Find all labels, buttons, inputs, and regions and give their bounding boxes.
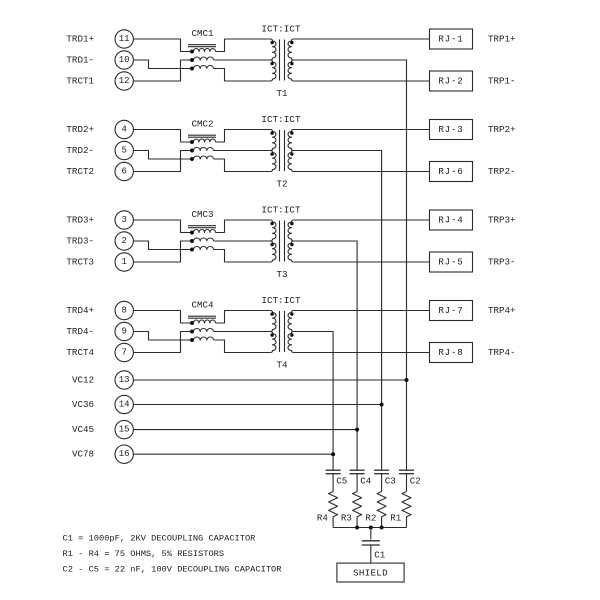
CMC1 core xyxy=(188,45,216,47)
svg-text:TRCT4: TRCT4 xyxy=(66,347,94,358)
svg-text:TRP1-: TRP1- xyxy=(488,76,516,87)
terminal box RJ-3 xyxy=(430,120,473,140)
svg-text:SHIELD: SHIELD xyxy=(353,567,388,578)
svg-text:TRP4+: TRP4+ xyxy=(488,305,516,316)
svg-text:12: 12 xyxy=(119,76,130,86)
pin 10 xyxy=(115,51,133,69)
svg-text:C3: C3 xyxy=(385,475,396,486)
svg-text:C4: C4 xyxy=(360,475,372,486)
terminal box RJ-7 xyxy=(430,301,473,321)
wire T2 secondary center tap to capacitor column (net VC) xyxy=(292,151,382,470)
resistor R3 xyxy=(353,492,362,528)
wire T4 secondary center tap to capacitor column (net VC) xyxy=(292,332,334,470)
resistor R2 xyxy=(377,492,386,528)
wire T3 secondary bottom to RJ-5 xyxy=(294,261,430,263)
svg-text:TRCT2: TRCT2 xyxy=(66,166,94,177)
svg-text:6: 6 xyxy=(121,167,126,177)
wire T1 secondary bottom to RJ-2 xyxy=(294,80,430,82)
transformer T4 core xyxy=(280,311,285,352)
svg-text:T3: T3 xyxy=(276,269,287,280)
svg-text:C1 = 1000pF, 2KV DECOUPLING CA: C1 = 1000pF, 2KV DECOUPLING CAPACITOR xyxy=(63,534,256,544)
wire T1 secondary top to RJ-1 xyxy=(294,38,430,40)
svg-text:3: 3 xyxy=(121,215,126,225)
svg-text:VC36: VC36 xyxy=(72,399,94,410)
svg-text:T1: T1 xyxy=(276,88,288,99)
svg-text:TRCT3: TRCT3 xyxy=(66,257,94,268)
svg-text:TRD1-: TRD1- xyxy=(66,55,94,66)
CMC1 winding 1 with polarity dot xyxy=(190,49,216,54)
CMC4 winding 2 with polarity dot xyxy=(190,329,214,334)
svg-text:10: 10 xyxy=(119,55,130,65)
svg-text:VC45: VC45 xyxy=(72,424,94,435)
svg-text:C2 - C5 = 22 nF, 100V DECOUPLI: C2 - C5 = 22 nF, 100V DECOUPLING CAPACIT… xyxy=(63,565,282,575)
svg-text:TRD4+: TRD4+ xyxy=(66,305,94,316)
wire pin 3 to CMC3 winding 1 xyxy=(133,220,192,233)
svg-text:TRP3+: TRP3+ xyxy=(488,215,516,226)
capacitor C2 xyxy=(399,470,414,491)
terminal box RJ-8 xyxy=(430,343,473,363)
transformer T3 primary winding xyxy=(270,220,276,262)
junction VC45 xyxy=(355,428,359,432)
svg-text:TRD2-: TRD2- xyxy=(66,145,94,156)
transformer T4 primary winding xyxy=(270,311,276,353)
svg-text:CMC2: CMC2 xyxy=(191,119,213,130)
svg-text:CMC1: CMC1 xyxy=(191,28,214,39)
svg-text:TRD3+: TRD3+ xyxy=(66,215,94,226)
svg-text:TRP2-: TRP2- xyxy=(488,166,516,177)
wire T3 secondary center tap to capacitor column (net VC) xyxy=(292,241,358,470)
pin 13 xyxy=(115,371,133,389)
junction VC78 xyxy=(331,452,335,456)
wire pin 6 to CMC2 winding 2 xyxy=(133,151,192,172)
svg-text:T2: T2 xyxy=(276,179,287,190)
pin 11 xyxy=(115,30,133,48)
transformer T3 core xyxy=(280,221,285,262)
svg-text:TRD1+: TRD1+ xyxy=(66,34,94,45)
CMC3 core xyxy=(188,226,216,228)
svg-text:ICT:ICT: ICT:ICT xyxy=(261,205,301,216)
svg-text:RJ-7: RJ-7 xyxy=(438,305,463,316)
svg-text:11: 11 xyxy=(119,34,130,44)
svg-text:ICT:ICT: ICT:ICT xyxy=(261,295,301,306)
svg-text:14: 14 xyxy=(119,400,130,410)
wire pin 2 to CMC3 winding 3 xyxy=(133,241,192,250)
pin 15 xyxy=(115,420,133,438)
wire pin 14 (VC36) to center-tap column xyxy=(133,404,381,406)
transformer T1 core xyxy=(280,40,285,81)
CMC2 winding 2 with polarity dot xyxy=(190,148,214,153)
junction bus/C1 xyxy=(369,526,373,530)
svg-text:TRP1+: TRP1+ xyxy=(488,34,516,45)
wire pin 9 to CMC4 winding 3 xyxy=(133,332,192,341)
pin 6 xyxy=(115,162,133,180)
svg-text:TRP2+: TRP2+ xyxy=(488,124,516,135)
pin 5 xyxy=(115,141,133,159)
pin 8 xyxy=(115,301,133,319)
CMC3 winding 1 with polarity dot xyxy=(190,230,216,235)
CMC4 core xyxy=(188,316,216,318)
transformer T2 core xyxy=(280,130,285,171)
svg-text:RJ-5: RJ-5 xyxy=(438,257,463,268)
terminal box RJ-4 xyxy=(430,210,473,230)
svg-text:TRCT1: TRCT1 xyxy=(66,76,94,87)
svg-text:C5: C5 xyxy=(336,475,347,486)
terminal box RJ-6 xyxy=(430,162,473,182)
transformer T2 secondary winding xyxy=(288,130,294,172)
terminal box RJ-2 xyxy=(430,71,473,91)
svg-text:15: 15 xyxy=(119,425,130,435)
svg-text:C1: C1 xyxy=(374,550,386,561)
svg-text:5: 5 xyxy=(121,146,126,156)
pin 14 xyxy=(115,395,133,413)
junction VC12 xyxy=(405,378,409,382)
pin 9 xyxy=(115,322,133,340)
wire CMC1 winding 1 to T1 primary top xyxy=(216,39,271,52)
svg-text:RJ-8: RJ-8 xyxy=(438,347,463,358)
wire CMC3 winding 2 to T3 primary center tap xyxy=(214,240,273,242)
terminal box RJ-5 xyxy=(430,252,473,272)
junction VC36 xyxy=(380,403,384,407)
transformer T2 primary winding xyxy=(270,130,276,172)
wire pin 8 to CMC4 winding 1 xyxy=(133,311,192,324)
T3 primary polarity dots xyxy=(270,222,273,246)
T1 secondary polarity dots xyxy=(290,41,293,65)
svg-text:VC12: VC12 xyxy=(72,375,94,386)
svg-text:TRD4-: TRD4- xyxy=(66,326,94,337)
resistor R1 xyxy=(402,492,411,528)
terminal box SHIELD xyxy=(337,563,404,582)
transformer T1 secondary winding xyxy=(288,39,294,81)
CMC4 winding 1 with polarity dot xyxy=(190,320,216,325)
CMC3 winding 3 with polarity dot xyxy=(190,247,214,252)
junction bus/R3 column xyxy=(355,526,359,530)
CMC2 winding 3 with polarity dot xyxy=(190,156,214,161)
svg-text:RJ-4: RJ-4 xyxy=(438,215,463,226)
resistor R4 xyxy=(329,492,338,528)
T2 primary polarity dots xyxy=(270,131,273,155)
wire T4 secondary bottom to RJ-8 xyxy=(294,352,430,354)
T1 primary polarity dots xyxy=(270,41,273,65)
capacitor C4 xyxy=(350,470,365,491)
svg-text:RJ-3: RJ-3 xyxy=(438,124,463,135)
wire CMC4 winding 2 to T4 primary center tap xyxy=(214,331,273,333)
svg-text:7: 7 xyxy=(121,348,126,358)
capacitor C5 xyxy=(326,470,341,491)
transformer T4 secondary winding xyxy=(288,311,294,353)
svg-text:RJ-1: RJ-1 xyxy=(438,34,463,45)
wire pin 12 to CMC1 winding 2 xyxy=(133,60,192,81)
wire CMC3 winding 1 to T3 primary top xyxy=(216,220,271,233)
svg-text:VC78: VC78 xyxy=(72,449,94,460)
svg-text:R1: R1 xyxy=(390,513,402,524)
pin 3 xyxy=(115,211,133,229)
wire pin 10 to CMC1 winding 3 xyxy=(133,60,192,69)
svg-text:TRP4-: TRP4- xyxy=(488,347,516,358)
wire pin 15 (VC45) to center-tap column xyxy=(133,429,357,431)
wire pin 13 (VC12) to center-tap column xyxy=(133,379,406,381)
wire CMC2 winding 3 to T2 primary bottom xyxy=(214,159,271,172)
T4 primary polarity dots xyxy=(270,312,273,336)
shield bus wire xyxy=(333,527,406,529)
svg-text:16: 16 xyxy=(119,449,130,459)
svg-text:R3: R3 xyxy=(341,513,352,524)
svg-text:R2: R2 xyxy=(365,513,376,524)
pin 16 xyxy=(115,445,133,463)
pin 4 xyxy=(115,120,133,138)
wire T3 secondary top to RJ-4 xyxy=(294,219,430,221)
T3 secondary polarity dots xyxy=(290,222,293,246)
svg-text:13: 13 xyxy=(119,375,130,385)
wire pin 4 to CMC2 winding 1 xyxy=(133,130,192,143)
svg-text:R4: R4 xyxy=(317,513,329,524)
wire T2 secondary top to RJ-3 xyxy=(294,129,430,131)
terminal box RJ-1 xyxy=(430,29,473,49)
svg-text:9: 9 xyxy=(121,327,126,337)
wire CMC1 winding 3 to T1 primary bottom xyxy=(214,69,271,82)
svg-text:4: 4 xyxy=(121,125,126,135)
svg-text:RJ-2: RJ-2 xyxy=(438,76,463,87)
svg-text:C2: C2 xyxy=(410,475,421,486)
transformer T1 primary winding xyxy=(270,39,276,81)
svg-text:R1 - R4 = 75 OHMS, 5% RESISTOR: R1 - R4 = 75 OHMS, 5% RESISTORS xyxy=(63,549,225,559)
CMC1 winding 2 with polarity dot xyxy=(190,57,214,62)
wire T1 secondary center tap to capacitor column (net VC) xyxy=(292,60,407,470)
wire pin 5 to CMC2 winding 3 xyxy=(133,151,192,160)
wire CMC4 winding 1 to T4 primary top xyxy=(216,311,271,324)
svg-text:TRD2+: TRD2+ xyxy=(66,124,94,135)
junction bus/R2 column xyxy=(380,526,384,530)
svg-text:T4: T4 xyxy=(276,360,288,371)
wire CMC1 winding 2 to T1 primary center tap xyxy=(214,59,273,61)
wire T2 secondary bottom to RJ-6 xyxy=(294,171,430,173)
pin 1 xyxy=(115,253,133,271)
pin 2 xyxy=(115,232,133,250)
svg-text:CMC4: CMC4 xyxy=(191,300,214,311)
svg-text:TRD3-: TRD3- xyxy=(66,236,94,247)
CMC2 winding 1 with polarity dot xyxy=(190,139,216,144)
wire pin 11 to CMC1 winding 1 xyxy=(133,39,192,52)
T4 secondary polarity dots xyxy=(290,312,293,336)
pin 12 xyxy=(115,72,133,90)
svg-text:CMC3: CMC3 xyxy=(191,209,213,220)
CMC1 winding 3 with polarity dot xyxy=(190,66,214,71)
CMC4 winding 3 with polarity dot xyxy=(190,337,214,342)
svg-text:1: 1 xyxy=(121,257,126,267)
wire bus to capacitor C1 xyxy=(370,528,372,540)
pin 7 xyxy=(115,343,133,361)
wire pin 7 to CMC4 winding 2 xyxy=(133,332,192,353)
wire pin 1 to CMC3 winding 2 xyxy=(133,241,192,262)
svg-text:ICT:ICT: ICT:ICT xyxy=(261,114,301,125)
wire T4 secondary top to RJ-7 xyxy=(294,310,430,312)
wire CMC4 winding 3 to T4 primary bottom xyxy=(214,340,271,353)
svg-text:RJ-6: RJ-6 xyxy=(438,166,463,177)
svg-text:TRP3-: TRP3- xyxy=(488,257,516,268)
wire CMC2 winding 2 to T2 primary center tap xyxy=(214,150,273,152)
wire CMC2 winding 1 to T2 primary top xyxy=(216,130,271,143)
wire pin 16 (VC78) to center-tap column xyxy=(133,453,333,455)
wire CMC3 winding 3 to T3 primary bottom xyxy=(214,250,271,263)
svg-text:8: 8 xyxy=(121,306,126,316)
transformer T3 secondary winding xyxy=(288,220,294,262)
capacitor C3 xyxy=(374,470,389,491)
capacitor C1 xyxy=(362,541,380,545)
svg-text:ICT:ICT: ICT:ICT xyxy=(261,24,301,35)
svg-text:2: 2 xyxy=(121,236,126,246)
CMC3 winding 2 with polarity dot xyxy=(190,238,214,243)
T2 secondary polarity dots xyxy=(290,131,293,155)
CMC2 core xyxy=(188,135,216,137)
wire C1 to SHIELD xyxy=(370,545,372,563)
